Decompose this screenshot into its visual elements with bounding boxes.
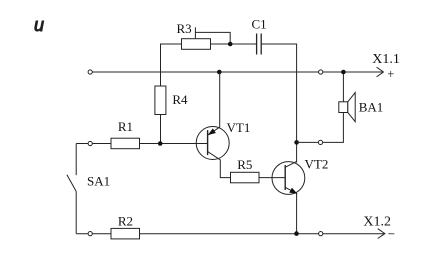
wire R3 right lead to C1 bbox=[211, 43, 257, 45]
node junction dot BA1 top on rail bbox=[341, 70, 346, 75]
resistor R4 bbox=[155, 86, 188, 115]
terminal circle left input middle bbox=[88, 141, 92, 145]
terminal X1.2 arrowhead bbox=[378, 229, 385, 239]
resistor R2 bbox=[111, 213, 140, 239]
switch SA1 bbox=[67, 144, 110, 234]
wire C1 right lead to vertical drop bbox=[261, 44, 296, 163]
wire bottom rail y=233.6 to X1.2 arrow bbox=[76, 233, 384, 235]
terminal circle left input top bbox=[88, 70, 92, 74]
wire R5 to VT2 base bbox=[259, 177, 285, 179]
wire R4 bottom lead bbox=[160, 115, 162, 144]
transistor VT2 bbox=[272, 157, 328, 234]
svg-text:R3: R3 bbox=[177, 21, 192, 36]
svg-text:SA1: SA1 bbox=[87, 174, 110, 189]
node junction dot C1/VT2 collector to BA1 branch bbox=[294, 140, 299, 145]
svg-text:C1: C1 bbox=[252, 17, 267, 32]
svg-text:R5: R5 bbox=[237, 157, 252, 172]
node junction dot VT1 emitter on top rail bbox=[217, 70, 222, 75]
resistor R5 bbox=[231, 157, 260, 183]
svg-text:BA1: BA1 bbox=[359, 100, 384, 115]
wire base line y=143.5 from SA1 corner to VT1 base bar bbox=[76, 143, 207, 145]
node junction dot R3/C1 tap bbox=[228, 42, 233, 47]
svg-text:R1: R1 bbox=[118, 119, 133, 134]
resistor R3 bbox=[177, 21, 211, 49]
svg-text:R4: R4 bbox=[172, 92, 188, 107]
svg-text:X1.1: X1.1 bbox=[372, 52, 400, 67]
wire R3 trimmer tap to right lead bbox=[195, 27, 230, 44]
connector circle on bottom rail bbox=[319, 232, 323, 236]
transistor VT1 bbox=[196, 72, 250, 178]
wire BA1 top lead from rail bbox=[342, 72, 344, 102]
capacitor C1 bbox=[252, 17, 267, 55]
svg-text:VT2: VT2 bbox=[305, 157, 329, 172]
connector circle on BA1 branch bbox=[318, 140, 322, 144]
label - polarity bbox=[388, 233, 394, 234]
connector circle on top rail bbox=[319, 70, 323, 74]
svg-text:X1.2: X1.2 bbox=[363, 214, 391, 229]
speaker BA1 bbox=[339, 93, 383, 122]
wire top rail y=72 from left terminal to X1.1 arrow bbox=[90, 71, 383, 73]
wire BA1 branch y=142.4 bbox=[297, 113, 344, 143]
terminal X1.1 arrowhead bbox=[377, 67, 384, 77]
resistor R1 bbox=[111, 119, 140, 149]
terminal circle left input bottom bbox=[88, 232, 92, 236]
svg-text:VT1: VT1 bbox=[227, 120, 251, 135]
svg-text:R2: R2 bbox=[118, 213, 133, 228]
svg-text:u: u bbox=[34, 15, 44, 35]
svg-text:+: + bbox=[387, 67, 394, 81]
node junction dot R4/R1/VT1 base bbox=[158, 141, 163, 146]
wire R3 left lead and vertical to R4 top bbox=[161, 44, 182, 86]
node junction dot VT2 emitter on bottom rail bbox=[294, 231, 299, 236]
